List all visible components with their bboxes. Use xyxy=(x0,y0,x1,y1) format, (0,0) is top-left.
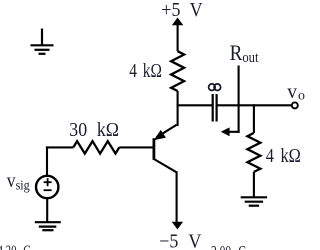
resistor RL 4k load resistor zigzag xyxy=(247,133,260,172)
value label 30 kOhm for RB xyxy=(69,119,119,141)
Rout arrowhead pointing left xyxy=(221,127,230,136)
source Vsig plus sign xyxy=(44,178,52,186)
resistor RB 30k base resistor zigzag xyxy=(73,141,119,153)
svg-text:4 kΩ: 4 kΩ xyxy=(266,145,301,167)
wire from RL to ground xyxy=(253,172,255,197)
wire from collector down to -5V arrow xyxy=(176,171,178,222)
node VCC label +5 V xyxy=(161,0,203,21)
Rout measurement arrow horizontal segment xyxy=(229,131,240,133)
value label 4 kOhm for RL xyxy=(266,145,301,167)
value label 4 kOhm for RC xyxy=(129,59,162,81)
transistor Q1 base bar xyxy=(152,138,155,160)
resistor RC 4k collector resistor zigzag xyxy=(171,51,184,91)
svg-text:4.30 C: 4.30 C xyxy=(0,244,30,250)
power +5V supply arrow xyxy=(172,18,183,26)
wire horizontal from node to capacitor xyxy=(177,104,212,106)
cropped caption text fragment bottom left xyxy=(0,244,30,250)
node VEE label -5 V xyxy=(159,230,201,250)
ground symbol top left (faint/hidden layer in source) xyxy=(31,29,54,54)
label vsig xyxy=(7,170,30,192)
wire from output wire down to resistor RL xyxy=(253,104,255,133)
wire from source to ground xyxy=(46,198,48,223)
svg-text:30 kΩ: 30 kΩ xyxy=(69,119,119,141)
svg-text:2.00 C: 2.00 C xyxy=(211,243,246,250)
transistor Q1 emitter arrowhead pointing into bar xyxy=(155,131,164,139)
wire base from transistor to resistor RB xyxy=(119,146,153,148)
transistor Q1 emitter diagonal from node wire to base bar xyxy=(157,125,177,138)
label Rout xyxy=(230,42,259,65)
value label infinity for C1 xyxy=(209,84,221,91)
wire from RC to collector node and down to transistor xyxy=(177,91,179,126)
source Vsig minus sign xyxy=(44,189,52,191)
wire from +5V arrow to resistor RC xyxy=(177,24,179,51)
source Vsig circle xyxy=(36,176,58,198)
ground symbol under RL xyxy=(241,197,267,205)
node label vo xyxy=(287,82,305,104)
svg-text:+5 V: +5 V xyxy=(161,0,203,21)
svg-text:−5 V: −5 V xyxy=(159,230,201,250)
Rout measurement arrow vertical segment xyxy=(238,66,240,133)
svg-text:4 kΩ: 4 kΩ xyxy=(129,59,162,81)
wire corner down to source vsig xyxy=(46,146,48,176)
power -5V supply arrow xyxy=(172,222,183,230)
ground symbol under Vsig xyxy=(35,222,61,230)
capacitor C1 right plate xyxy=(216,94,218,122)
output terminal open circle xyxy=(292,102,298,108)
transistor Q1 collector diagonal xyxy=(154,159,177,172)
wire from RB to corner above source xyxy=(46,146,73,148)
svg-text:vo: vo xyxy=(287,82,305,104)
cropped caption text fragment bottom right xyxy=(211,243,246,250)
svg-text:vsig: vsig xyxy=(7,170,30,192)
capacitor C1 infinity coupling cap left plate xyxy=(212,94,214,122)
svg-text:Rout: Rout xyxy=(230,42,259,65)
wire from capacitor to output terminal xyxy=(217,104,291,106)
